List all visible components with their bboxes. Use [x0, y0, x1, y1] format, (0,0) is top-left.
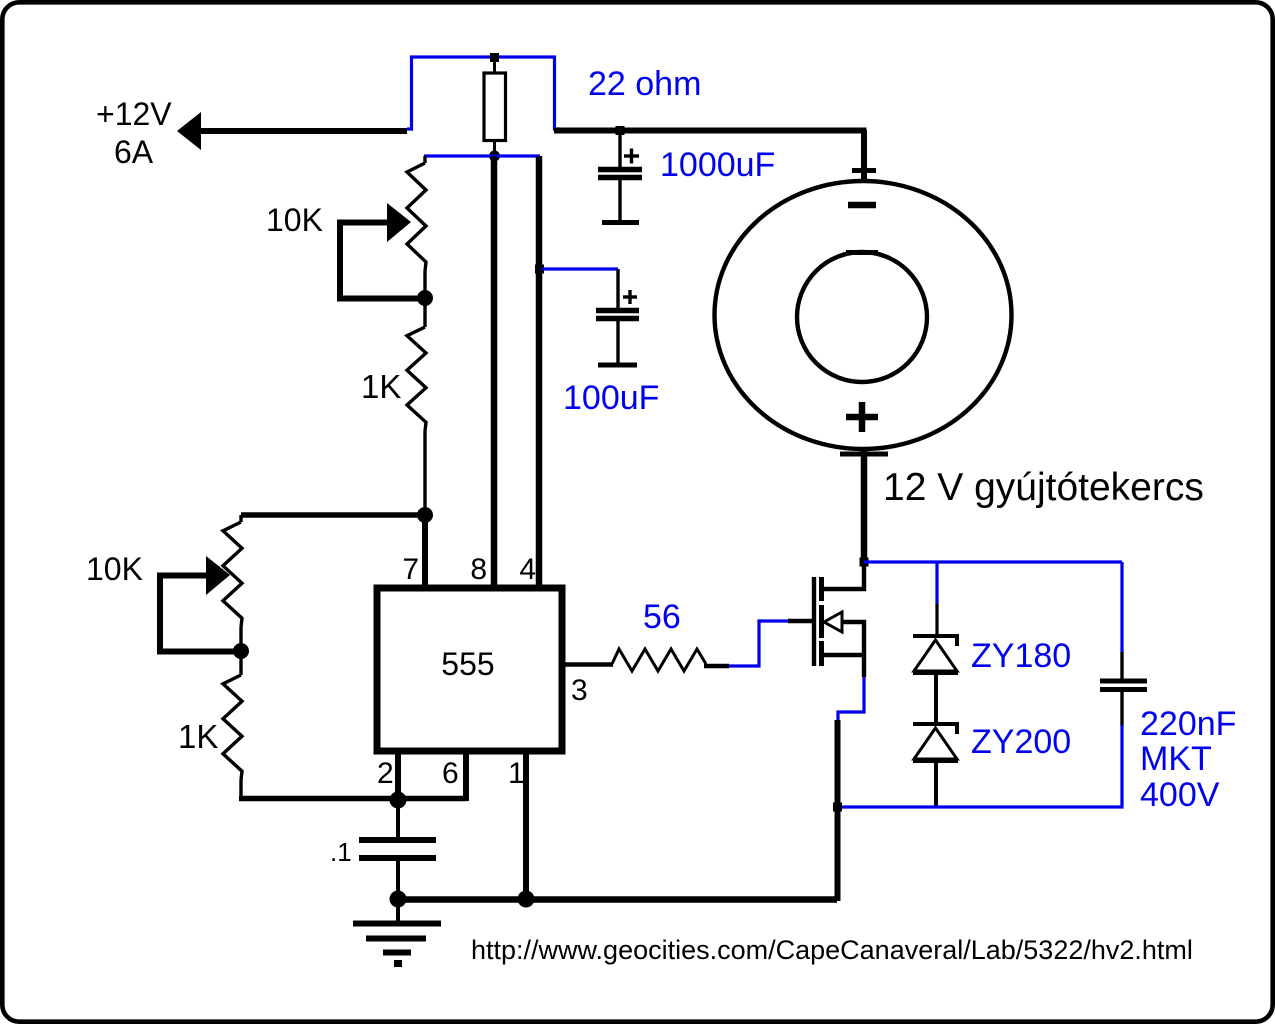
capacitor C4 220nF	[1120, 652, 1123, 679]
svg-text:2: 2	[377, 757, 394, 790]
svg-text:100uF: 100uF	[563, 379, 659, 417]
svg-text:1000uF: 1000uF	[660, 146, 775, 184]
P2 wiper wires	[160, 576, 241, 652]
pin 3 lead	[562, 662, 613, 666]
svg-text:+12V: +12V	[96, 96, 172, 132]
P2 wiper arrow	[206, 556, 230, 595]
pin 6 wire	[463, 751, 469, 801]
wire blue loop around R1	[407, 57, 560, 129]
wire blue gate path	[729, 621, 790, 666]
P1 wiper wires	[340, 223, 425, 299]
capacitor C1 1000uF	[618, 131, 621, 167]
svg-text:8: 8	[470, 553, 487, 586]
coil minus	[848, 202, 876, 209]
wire blue zener branch	[935, 562, 938, 606]
coil top terminal bar	[852, 168, 876, 173]
svg-text:10K: 10K	[86, 551, 143, 587]
resistor R1 22 ohm	[493, 57, 496, 73]
svg-text:1: 1	[508, 757, 525, 790]
node top of R1	[490, 53, 499, 62]
svg-text:MKT: MKT	[1140, 740, 1212, 778]
wire coil bottom to drain	[861, 450, 868, 563]
wire zener bottom	[934, 760, 938, 808]
P1 wiper arrow	[387, 203, 411, 242]
svg-text:400V: 400V	[1140, 776, 1220, 814]
node pin2 junction	[390, 792, 407, 809]
resistor R56 zigzag	[612, 649, 706, 671]
ground symbol	[396, 899, 400, 921]
pin 4 wire	[536, 156, 543, 588]
svg-text:6: 6	[442, 757, 459, 790]
wire blue drain net	[864, 560, 1122, 563]
wire cross y515	[241, 512, 425, 518]
svg-text:555: 555	[441, 646, 494, 682]
node pin7 junction	[417, 507, 433, 523]
potentiometer P2 zigzag	[239, 515, 242, 522]
node C2 tap on pin4	[535, 265, 544, 274]
svg-text:22 ohm: 22 ohm	[588, 65, 701, 103]
node P1 wiper	[417, 290, 433, 306]
ignition coil outer	[715, 181, 1012, 449]
svg-text:.1: .1	[330, 837, 352, 867]
svg-text:4: 4	[519, 553, 536, 586]
wire bus y899	[398, 896, 837, 903]
555 box U1	[377, 588, 562, 751]
svg-text:6A: 6A	[114, 134, 154, 170]
svg-text:10K: 10K	[266, 202, 323, 238]
node ground junction	[390, 891, 407, 908]
svg-text:http://www.geocities.com/CapeC: http://www.geocities.com/CapeCanaveral/L…	[471, 935, 1193, 965]
node C1 tap	[616, 126, 625, 135]
svg-text:12 V gyújtótekercs: 12 V gyújtótekercs	[883, 466, 1204, 509]
pin 2 wire	[395, 751, 401, 798]
capacitor C3 .1	[396, 800, 400, 837]
ignition coil inner	[797, 252, 927, 382]
svg-text:3: 3	[571, 674, 588, 707]
resistor R3 1K	[239, 651, 242, 675]
capacitor C2 100uF	[616, 269, 619, 309]
wire +12V horizontal	[198, 128, 407, 134]
node below R1	[489, 151, 500, 162]
potentiometer P1 zigzag	[423, 156, 426, 163]
wire blue to C2	[542, 267, 618, 270]
wire main bus to coil	[554, 128, 867, 134]
lead after 56	[704, 664, 729, 668]
svg-text:1K: 1K	[361, 368, 401, 405]
transistor Q1 MOSFET	[822, 566, 864, 589]
node P2 wiper	[233, 643, 249, 659]
diode D2 ZY200	[913, 724, 957, 734]
wire bus y798	[239, 796, 466, 802]
svg-text:1K: 1K	[178, 718, 218, 755]
gate lead black	[788, 619, 812, 623]
wire source down	[835, 720, 841, 901]
wire blue cap bottom	[837, 725, 1122, 807]
pin 1 wire	[523, 751, 529, 899]
coil bottom terminal bar	[840, 452, 888, 457]
arrow +12V supply	[177, 112, 201, 150]
svg-text:ZY180: ZY180	[971, 637, 1071, 675]
wire between zeners	[934, 672, 938, 724]
svg-text:ZY200: ZY200	[971, 723, 1071, 761]
svg-text:7: 7	[402, 553, 419, 586]
node drain	[860, 558, 869, 567]
pin 8 wire	[491, 156, 498, 588]
wire blue y156	[424, 154, 540, 157]
svg-text:220nF: 220nF	[1140, 705, 1236, 743]
coil plus	[846, 414, 878, 421]
wire blue source jog	[838, 677, 864, 722]
diode D1 ZY180	[913, 636, 957, 646]
node source-zener junction	[833, 803, 842, 812]
pin 7 wire	[422, 515, 428, 588]
coil inner top bar	[846, 250, 878, 255]
wire blue right vertical	[1120, 562, 1123, 653]
node pin1 junction	[518, 891, 535, 908]
svg-text:56: 56	[643, 598, 681, 636]
resistor R2 1K	[423, 298, 426, 327]
